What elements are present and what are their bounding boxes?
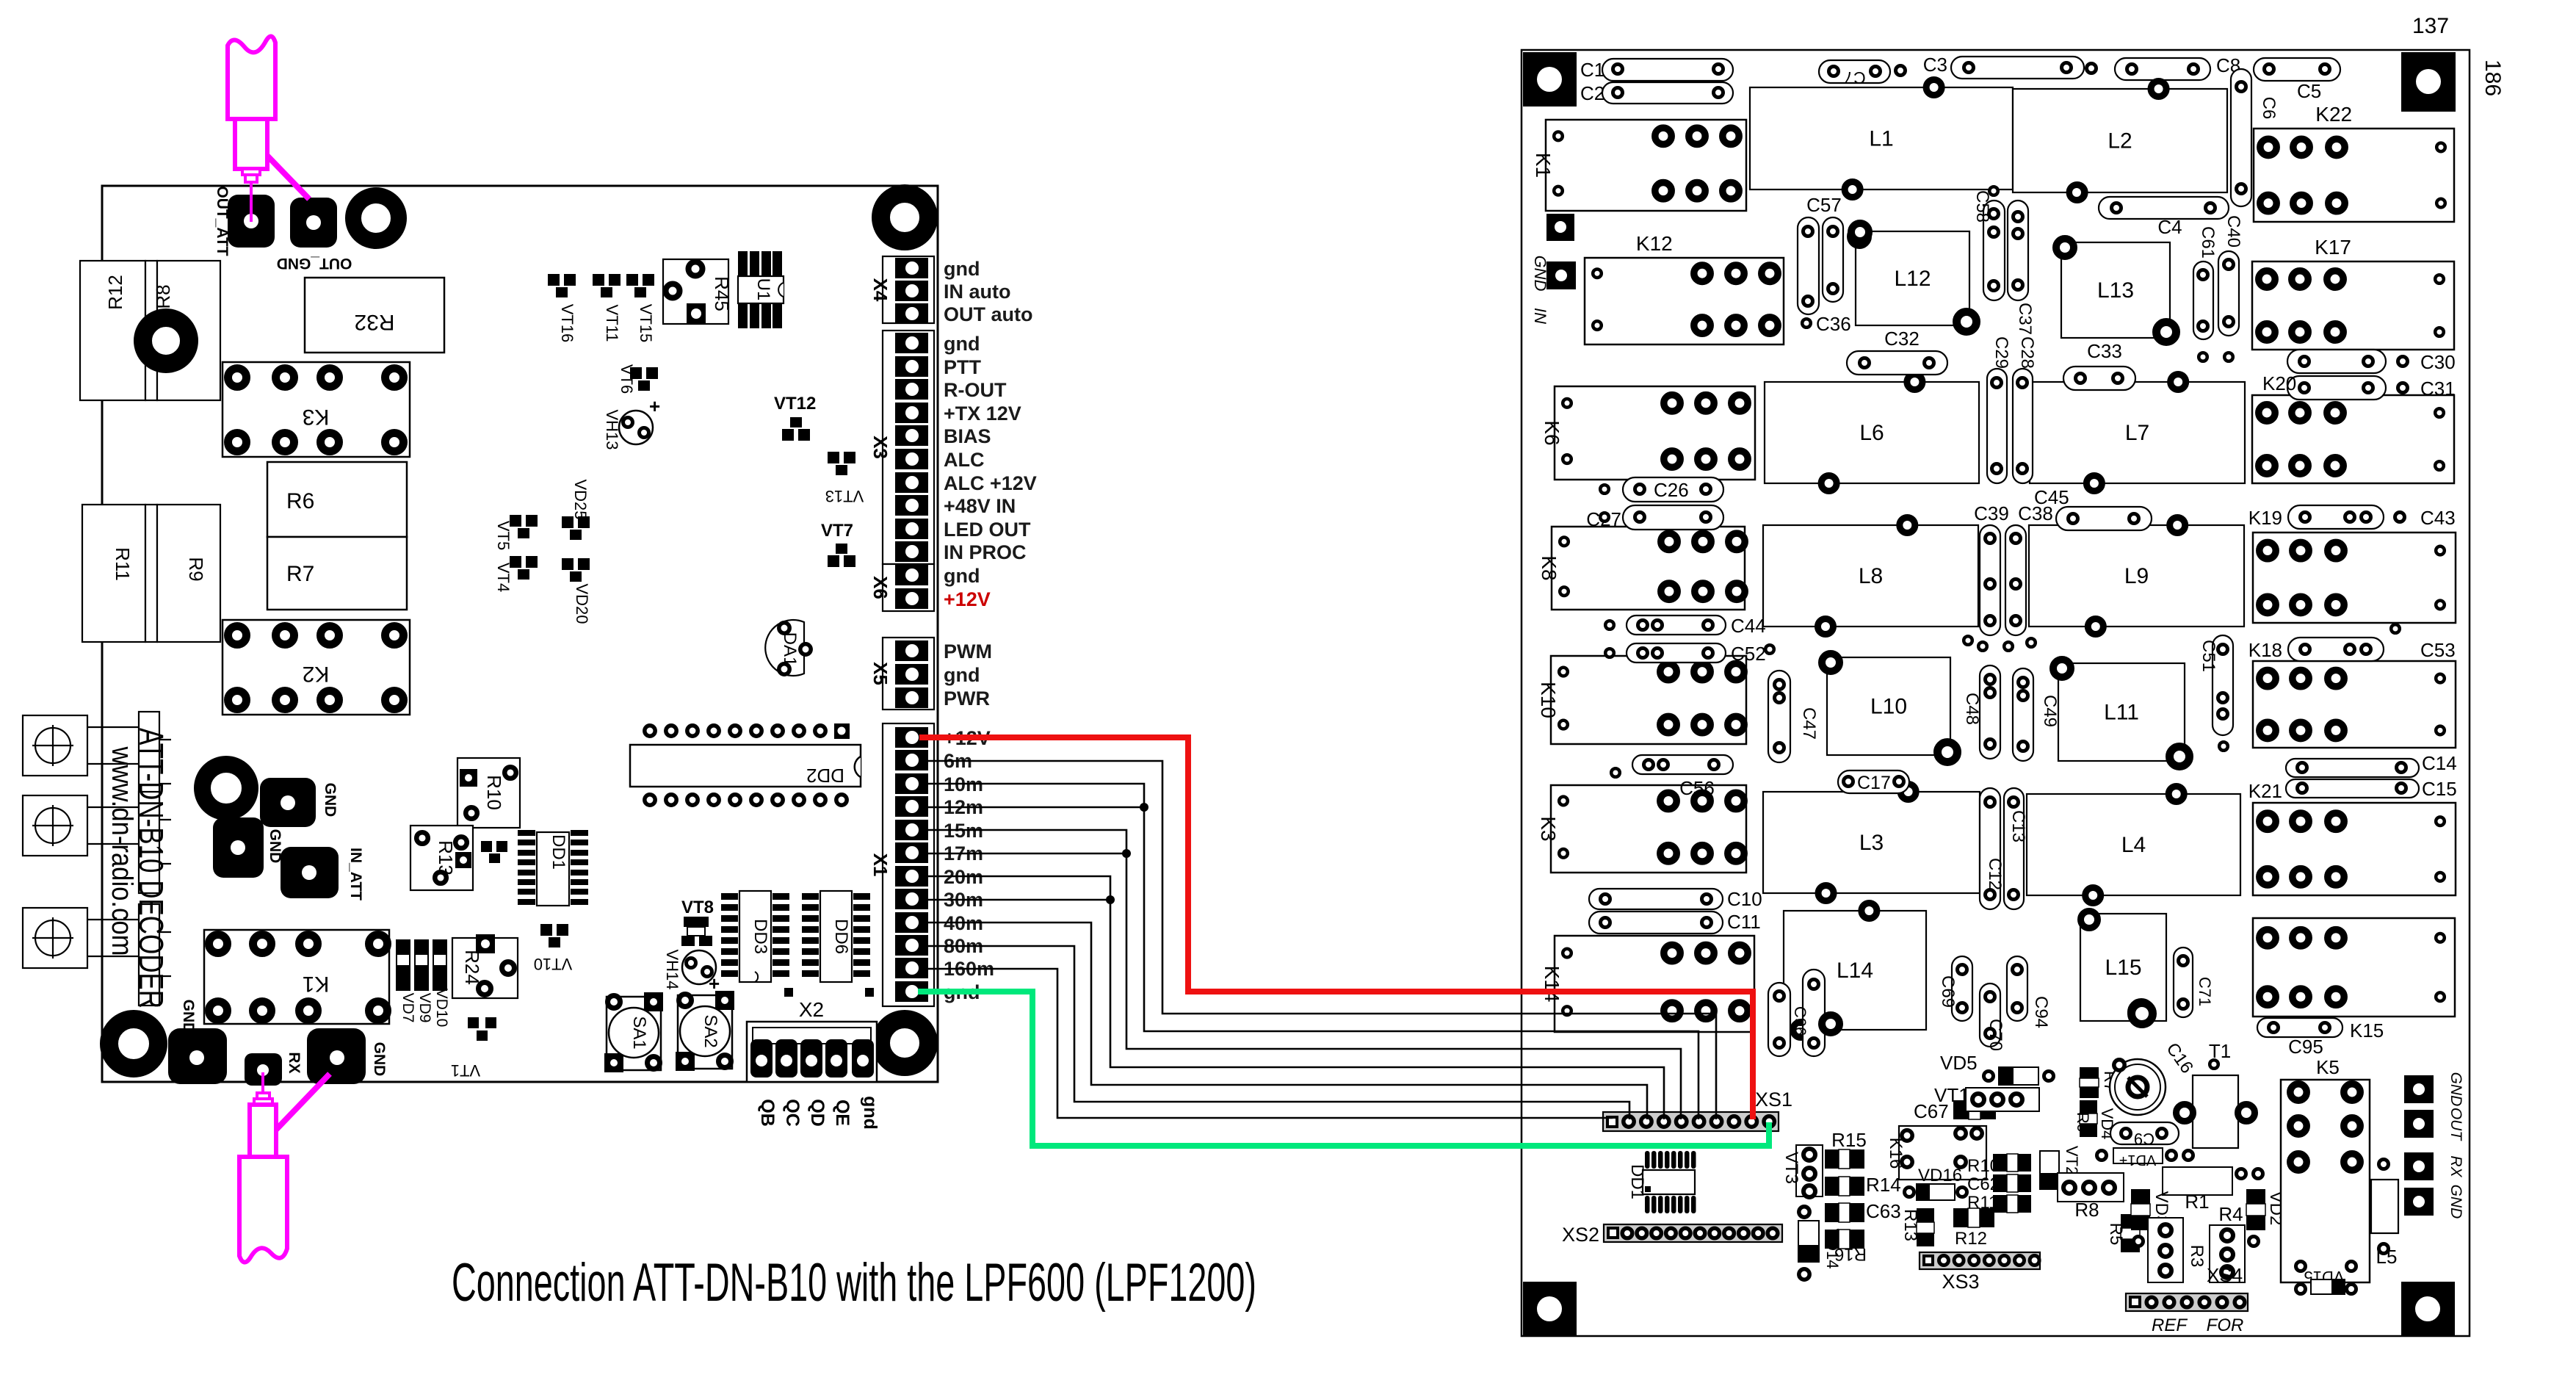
transistor VT8 (684, 917, 709, 927)
resistor R16 (1825, 1230, 1864, 1249)
probe ground lead bottom (276, 1074, 330, 1130)
svg-text:R7: R7 (286, 562, 314, 586)
svg-text:C31: C31 (2420, 378, 2456, 400)
svg-text:K19: K19 (2248, 507, 2282, 529)
inductor L8 (1763, 525, 1978, 627)
svg-text:VT8: VT8 (681, 898, 714, 917)
svg-text:C14: C14 (2422, 752, 2457, 774)
corner pad bottom-right (2401, 1282, 2455, 1336)
svg-text:R15: R15 (1831, 1129, 1867, 1151)
svg-text:L9: L9 (2124, 564, 2149, 588)
capacitor C13 (2004, 788, 2024, 909)
inductor L1 (1750, 87, 2013, 189)
transformer T1 (2193, 1075, 2238, 1148)
svg-text:C49: C49 (2040, 695, 2060, 727)
transistor VT10 (540, 924, 552, 936)
svg-text:C43: C43 (2420, 507, 2456, 529)
svg-text:R16: R16 (1834, 1244, 1867, 1264)
svg-text:DD2: DD2 (806, 765, 844, 787)
probe needle top (250, 182, 253, 222)
capacitor C15 / K21 label (2286, 779, 2419, 798)
transistor VT2 / diode stack (2040, 1151, 2059, 1189)
svg-text:+12V: +12V (944, 588, 991, 610)
capacitor C12 (1980, 788, 2000, 909)
capacitor C95 (2257, 1018, 2342, 1037)
svg-text:L12: L12 (1894, 267, 1931, 291)
capacitor C32 (1847, 351, 1947, 375)
inductor L14 (1784, 911, 1926, 1030)
pad GND bottom-left (168, 1028, 227, 1084)
probe plug bottom (254, 1093, 272, 1105)
pad IN_ATT (281, 847, 339, 898)
capacitor C70 (1980, 983, 2000, 1047)
IC DD6 (820, 891, 852, 982)
svg-text:C30: C30 (2420, 351, 2456, 373)
svg-text:R3: R3 (2187, 1245, 2207, 1268)
resistor R9 (145, 505, 157, 642)
svg-text:R6: R6 (286, 489, 314, 513)
svg-text:C70: C70 (1986, 1019, 2005, 1051)
svg-text:SA1: SA1 (629, 1016, 649, 1049)
pad GND right board (1546, 214, 1574, 241)
svg-text:VT4: VT4 (494, 563, 513, 592)
svg-text:K1: K1 (303, 972, 330, 996)
svg-text:X1: X1 (869, 853, 891, 877)
wire 15m (919, 830, 1681, 1119)
svg-text:L1: L1 (1869, 127, 1893, 151)
transistor VT3 (1796, 1145, 1823, 1196)
svg-text:www.dn-radio.com: www.dn-radio.com (106, 746, 138, 956)
pad GND 1 (260, 778, 316, 827)
svg-text:VD1+: VD1+ (2119, 1152, 2157, 1168)
svg-text:gnd: gnd (944, 664, 980, 686)
diode VD1+ (2113, 1148, 2163, 1163)
svg-text:VT3: VT3 (1781, 1152, 1801, 1184)
transistor VT16 (548, 274, 560, 286)
edge connector 2 (23, 795, 87, 856)
svg-text:K3: K3 (303, 405, 330, 429)
button SA1 (607, 997, 661, 1070)
capacitor C29 (1987, 369, 2007, 483)
svg-text:L8: L8 (1859, 564, 1883, 588)
svg-text:XS2: XS2 (1562, 1224, 1599, 1246)
svg-text:R13: R13 (1900, 1209, 1920, 1241)
wire red +12V (919, 737, 1753, 1119)
diode VD3 (2131, 1189, 2150, 1230)
svg-text:VD10: VD10 (433, 989, 450, 1028)
capacitor C44 (1627, 616, 1726, 635)
relay K20 (2252, 395, 2454, 483)
svg-text:gnd: gnd (860, 1096, 880, 1130)
relay K14 (1555, 936, 1754, 1032)
capacitor C33 (2063, 367, 2135, 390)
svg-text:DD3: DD3 (750, 919, 770, 954)
svg-text:R12: R12 (104, 275, 126, 310)
svg-text:VD7: VD7 (399, 993, 416, 1023)
svg-text:C44: C44 (1731, 615, 1766, 637)
svg-text:R12: R12 (1955, 1229, 1987, 1249)
resistor R8 (145, 261, 157, 400)
svg-text:IN: IN (1531, 308, 1549, 324)
svg-text:L7: L7 (2125, 421, 2149, 445)
svg-text:C40: C40 (2224, 215, 2243, 248)
inductor L4 (2027, 794, 2240, 895)
resistor R11 (82, 505, 145, 642)
svg-text:C48: C48 (1962, 693, 1982, 725)
svg-text:gnd: gnd (944, 333, 980, 355)
svg-text:XS4: XS4 (2207, 1264, 2243, 1286)
resistor R3 (2148, 1218, 2183, 1282)
svg-text:C94: C94 (2031, 996, 2051, 1028)
relay K16 (1899, 1126, 1986, 1180)
board ATT-DN-B10 outline (102, 186, 938, 1082)
svg-text:OUT_ATT: OUT_ATT (214, 186, 231, 256)
svg-text:R9: R9 (185, 557, 207, 581)
svg-text:SA2: SA2 (701, 1014, 720, 1047)
capacitor C1 (1602, 59, 1733, 81)
connector X5 (883, 638, 934, 710)
probe needle bottom (261, 1072, 264, 1093)
svg-text:RX: RX (2447, 1155, 2464, 1177)
svg-text:C10: C10 (1727, 888, 1762, 910)
inductor L15 (2080, 914, 2166, 1021)
pad GND right edge (2404, 1188, 2434, 1216)
inductor L5 (2371, 1180, 2398, 1233)
capacitor C31 / K20 label (2287, 376, 2386, 400)
svg-text:DD1: DD1 (1627, 1164, 1647, 1199)
IC DD3 (739, 891, 771, 982)
capacitor C69 (1952, 956, 1972, 1021)
resistor R9 right (2080, 1100, 2097, 1137)
resistor R32 (305, 278, 444, 353)
svg-text:VT1: VT1 (1934, 1084, 1969, 1106)
pad GND bottom-mid (307, 1028, 366, 1084)
svg-text:VT13: VT13 (825, 487, 864, 505)
capacitor C3 (1951, 57, 2084, 79)
svg-text:GND: GND (180, 1000, 197, 1034)
svg-text:C61: C61 (2198, 226, 2218, 259)
diodes VD7 VD9 VD10 (396, 939, 410, 991)
svg-text:K14: K14 (1541, 966, 1563, 1003)
svg-text:R45: R45 (711, 276, 733, 311)
LED VH13 (619, 411, 653, 444)
transistor VT1 (468, 1017, 479, 1028)
connector XS2 (1604, 1224, 1782, 1242)
capacitor C6 (2231, 69, 2251, 206)
svg-text:C32: C32 (1884, 328, 1920, 350)
capacitor C53 / K18 label (2288, 638, 2384, 661)
wire 80m (919, 946, 1629, 1119)
diode VD14 (1798, 1221, 1819, 1262)
svg-text:K15: K15 (2350, 1019, 2384, 1042)
transistor VT4 (510, 556, 521, 568)
transistors near R13 (481, 841, 492, 852)
svg-text:C17: C17 (1857, 773, 1891, 793)
pad GND 2 (213, 817, 264, 878)
pad OUT_ATT (228, 195, 275, 248)
inductor L7 (2030, 382, 2245, 483)
svg-text:VD5: VD5 (1940, 1052, 1978, 1074)
resistor R7 right (2080, 1067, 2099, 1098)
probe ground lead top (267, 156, 309, 199)
svg-text:R9: R9 (2074, 1112, 2092, 1133)
svg-text:X3: X3 (869, 436, 891, 459)
connector X2 (747, 1022, 877, 1082)
svg-text:K6: K6 (1541, 420, 1563, 445)
edge connector 1 (23, 715, 87, 776)
svg-text:C2: C2 (1580, 82, 1604, 104)
wire 6m (919, 761, 1716, 1119)
svg-text:R4: R4 (2218, 1203, 2243, 1225)
svg-text:VT10: VT10 (534, 955, 573, 973)
pad RX right edge (2404, 1152, 2434, 1180)
svg-text:+: + (649, 395, 660, 417)
svg-text:K5: K5 (2316, 1056, 2340, 1078)
capacitor C90 (1768, 983, 1790, 1056)
svg-text:R8: R8 (2074, 1199, 2099, 1221)
connector XS1 (1603, 1112, 1779, 1131)
svg-text:186: 186 (2481, 59, 2505, 96)
svg-text:L4: L4 (2121, 833, 2146, 857)
capacitor C14 (2286, 759, 2419, 777)
capacitor C52 (1627, 643, 1726, 663)
pad RX (245, 1053, 282, 1086)
resistor R13 (410, 826, 473, 890)
svg-text:GND: GND (1531, 256, 1549, 292)
IC DD1 right board (1643, 1170, 1695, 1194)
resistor R45 (663, 259, 728, 324)
inductor L6 (1765, 382, 1979, 483)
svg-text:R13: R13 (435, 840, 457, 876)
trimmer C16 (2110, 1059, 2166, 1115)
relay K3 (222, 362, 410, 457)
connector XS3 (1920, 1252, 2040, 1269)
svg-text:VT2: VT2 (2063, 1146, 2081, 1175)
svg-text:C33: C33 (2087, 340, 2122, 362)
svg-text:PWR: PWR (944, 687, 990, 710)
svg-text:C11: C11 (1727, 911, 1761, 933)
svg-text:VD25: VD25 (571, 479, 590, 519)
transistor VT5 (510, 515, 521, 527)
pad OUT_GND (290, 198, 337, 248)
resistor R7 (267, 537, 407, 610)
junction dot 17m-15m (1122, 849, 1131, 858)
svg-text:IN auto: IN auto (944, 281, 1011, 303)
svg-text:VD16: VD16 (1918, 1166, 1962, 1185)
svg-text:VD20: VD20 (573, 583, 591, 624)
svg-text:VT15: VT15 (637, 304, 655, 343)
svg-text:C1: C1 (1580, 59, 1604, 81)
relay K8 (1552, 527, 1745, 610)
svg-text:X5: X5 (869, 662, 891, 685)
junction dot 12m-10m (1140, 803, 1148, 812)
svg-text:L10: L10 (1870, 695, 1907, 719)
svg-text:VH13: VH13 (603, 409, 621, 450)
svg-text:R8: R8 (152, 284, 174, 308)
svg-text:FOR: FOR (2207, 1315, 2244, 1335)
resistor R8 right (2058, 1173, 2124, 1202)
wire 160m (919, 969, 1613, 1118)
svg-text:GND: GND (2447, 1072, 2464, 1107)
svg-text:C39: C39 (1974, 502, 2009, 524)
wire 10m (919, 784, 1698, 1119)
IC DD2 (630, 745, 861, 787)
svg-text:C56: C56 (1679, 777, 1715, 799)
capacitor C36 (1802, 319, 1811, 328)
svg-text:C58: C58 (1972, 190, 1992, 223)
capacitor C56 (1632, 755, 1733, 774)
capacitor C4 (2099, 197, 2229, 219)
relay K3 (1551, 785, 1746, 873)
svg-text:L2: L2 (2108, 129, 2132, 154)
capacitor C51 (2213, 635, 2233, 735)
IC DD1 left board (537, 832, 569, 906)
svg-text:K2: K2 (303, 662, 330, 686)
svg-text:GND: GND (322, 783, 339, 817)
resistor R5 right (2121, 1214, 2140, 1252)
capacitor C2 (1602, 82, 1733, 104)
svg-text:OUT_GND: OUT_GND (277, 255, 352, 272)
relay K22 (2254, 129, 2454, 222)
relay K10 (1551, 656, 1746, 744)
svg-text:QB: QB (757, 1099, 778, 1127)
capacitor C17 (1838, 770, 1909, 793)
wire 12m (919, 806, 1144, 809)
capacitor C47 (1768, 671, 1790, 762)
wire 17m (919, 853, 1126, 855)
svg-text:K16: K16 (1886, 1138, 1906, 1169)
svg-text:K18: K18 (2248, 639, 2282, 661)
svg-text:OUT auto: OUT auto (944, 303, 1033, 325)
svg-text:+48V IN: +48V IN (944, 495, 1016, 517)
svg-text:VT5: VT5 (494, 521, 513, 550)
corner pad top-left (1523, 52, 1577, 107)
svg-text:VT11: VT11 (603, 305, 621, 342)
diode VD2 (2246, 1189, 2265, 1230)
svg-text:K10: K10 (1537, 682, 1560, 718)
svg-text:C9: C9 (2134, 1130, 2154, 1148)
IC U1 (738, 276, 784, 303)
svg-text:VD9: VD9 (416, 993, 433, 1023)
inductor L12 (1856, 231, 1969, 325)
resistor R24 (452, 938, 518, 998)
svg-text:R32: R32 (354, 310, 394, 334)
svg-text:C71: C71 (2196, 977, 2214, 1006)
svg-text:137: 137 (2412, 14, 2449, 38)
svg-text:K1: K1 (1532, 153, 1555, 178)
pad GND right edge (2404, 1075, 2434, 1103)
relay K21 (2253, 803, 2456, 895)
svg-text:IN_ATT: IN_ATT (347, 848, 364, 900)
svg-text:QC: QC (782, 1099, 803, 1127)
connector X1 (883, 723, 934, 1006)
op-amp DA1 (765, 620, 804, 676)
svg-text:X4: X4 (869, 278, 891, 302)
svg-text:VT1: VT1 (451, 1061, 480, 1080)
transistor VT7 (836, 544, 847, 554)
svg-text:C7: C7 (1844, 68, 1865, 87)
svg-text:U1: U1 (753, 278, 773, 301)
capacitor C48 (1980, 665, 2000, 759)
svg-text:C26: C26 (1654, 479, 1689, 501)
junction dot 30m-20m (1106, 895, 1115, 904)
svg-text:K8: K8 (1538, 555, 1560, 580)
mounting hole bottom-right (881, 1019, 929, 1067)
svg-text:VT7: VT7 (821, 521, 853, 541)
svg-text:ALC: ALC (944, 449, 985, 471)
svg-text:C5: C5 (2297, 80, 2321, 102)
resistor R12 right (1953, 1208, 1994, 1227)
corner pad top-right (2401, 52, 2456, 112)
relay K17 (2252, 261, 2454, 350)
svg-text:C51: C51 (2199, 640, 2218, 672)
svg-text:K12: K12 (1636, 232, 1673, 255)
wire 20m (919, 876, 1664, 1119)
svg-text:L15: L15 (2105, 956, 2141, 980)
svg-text:LED OUT: LED OUT (944, 519, 1031, 541)
diode VD20 (562, 558, 574, 570)
resistor R12 (80, 261, 145, 400)
capacitor C49 (2013, 668, 2033, 761)
svg-text:C15: C15 (2422, 778, 2457, 800)
capacitor C71 (2174, 947, 2193, 1017)
capacitor C27 (1623, 505, 1723, 530)
svg-text:C52: C52 (1731, 643, 1766, 665)
resistor R14 (1825, 1177, 1864, 1196)
svg-text:C36: C36 (1816, 313, 1851, 335)
svg-text:OUT: OUT (2447, 1108, 2464, 1142)
capacitor C38 (2005, 525, 2026, 635)
mounting hole top-right (881, 194, 929, 242)
inductor L2 (2013, 89, 2227, 192)
transistor VT6 (630, 367, 642, 379)
svg-text:+TX 12V: +TX 12V (944, 403, 1021, 425)
relay K1 (1546, 120, 1746, 211)
svg-text:C13: C13 (2008, 810, 2028, 842)
transistor VT12 (790, 417, 802, 427)
connector XS4 (2126, 1293, 2248, 1311)
probe plug top (235, 119, 267, 169)
svg-text:XS3: XS3 (1942, 1271, 1979, 1293)
svg-text:BIAS: BIAS (944, 425, 991, 447)
svg-text:L6: L6 (1859, 421, 1884, 445)
relay K15 (2253, 918, 2455, 1017)
capacitor C7 (1819, 60, 1890, 83)
svg-text:X2: X2 (799, 998, 824, 1021)
svg-text:VT6: VT6 (618, 364, 636, 394)
svg-text:C95: C95 (2288, 1036, 2323, 1058)
capacitor C94 (2007, 956, 2027, 1021)
svg-text:ALC +12V: ALC +12V (944, 472, 1037, 494)
svg-text:R5: R5 (2106, 1223, 2126, 1246)
resistor R1 (2163, 1167, 2232, 1195)
svg-text:IN PROC: IN PROC (944, 541, 1027, 563)
svg-text:VT16: VT16 (558, 304, 576, 343)
inductor L13 (2061, 242, 2170, 338)
capacitor C57 (1798, 217, 1819, 314)
capacitor C40 (2218, 251, 2239, 336)
corner pad bottom-left (1523, 1282, 1577, 1336)
relay K5 (2281, 1080, 2370, 1282)
pad IN right board (1546, 261, 1576, 289)
mounting ring R8 area (143, 318, 189, 364)
svg-text:GND: GND (371, 1042, 388, 1077)
svg-text:L14: L14 (1837, 959, 1873, 983)
svg-text:QD: QD (807, 1099, 828, 1127)
svg-text:C29: C29 (1991, 336, 2011, 369)
capacitor C30 (2287, 350, 2386, 373)
wire 30m (919, 899, 1110, 901)
